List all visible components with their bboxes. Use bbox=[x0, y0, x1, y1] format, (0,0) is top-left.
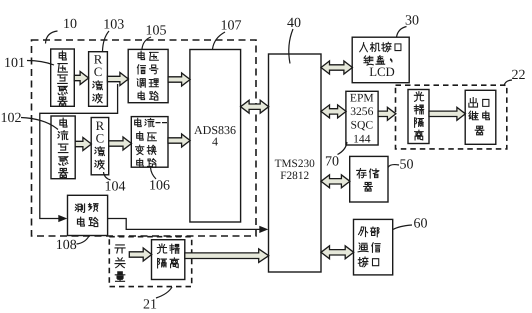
svg-text:LCD: LCD bbox=[369, 65, 395, 79]
leader 104 bbox=[104, 172, 111, 180]
leader 106 bbox=[151, 168, 157, 180]
svg-text:22: 22 bbox=[512, 68, 526, 83]
text 开关量 switch quantity bbox=[115, 245, 125, 281]
leader 108 bbox=[77, 236, 90, 244]
arrow optocoupler 21 to 40 TMS bbox=[185, 249, 269, 263]
arrow 70 EPM to optocoupler 22 bbox=[378, 107, 396, 120]
box 50 memory 存储器 bbox=[350, 156, 388, 202]
label 102 bbox=[1, 111, 22, 126]
label 22 bbox=[512, 68, 526, 83]
double arrow 40 TMS to 60 comm interface bbox=[321, 246, 354, 259]
svg-text:10: 10 bbox=[63, 17, 77, 32]
box optocoupler isolation 光耦隔离 (in 21) bbox=[152, 240, 185, 280]
svg-text:EPM: EPM bbox=[350, 92, 374, 105]
label 70 bbox=[325, 155, 339, 170]
text 电流--电压变换电路 bbox=[135, 118, 167, 167]
arrow 103 to 105 bbox=[107, 73, 128, 86]
text 人机接口键盘、LCD bbox=[360, 42, 401, 79]
leader 21 bbox=[156, 287, 172, 298]
box 107 A/D converter ADS8364 bbox=[190, 50, 241, 223]
text TMS230 F2812 bbox=[275, 158, 316, 182]
text 光耦隔离 vertical bbox=[414, 92, 423, 140]
text 光耦隔离 (21) bbox=[157, 244, 179, 268]
svg-text:21: 21 bbox=[143, 298, 157, 313]
text 存储器 bbox=[357, 169, 379, 192]
svg-text:107: 107 bbox=[221, 19, 242, 34]
svg-text:144: 144 bbox=[353, 133, 371, 146]
label 50 bbox=[400, 158, 414, 173]
label 60 bbox=[414, 217, 428, 232]
text 电压信号调理电路 bbox=[137, 51, 158, 100]
label 107 bbox=[221, 19, 242, 34]
leader 60 bbox=[393, 225, 412, 230]
label 103 bbox=[103, 18, 124, 33]
text 出口继电器 bbox=[469, 97, 490, 134]
text R C 滤 波 bbox=[93, 52, 103, 102]
arrow 101 to 103 bbox=[74, 72, 88, 85]
arrow optocoupler to outlet relay bbox=[429, 107, 465, 120]
leader 22 bbox=[504, 80, 512, 86]
text 测频电路 bbox=[75, 203, 98, 226]
box 30 man-machine interface keyboard LCD 人机接口键盘、LCD bbox=[352, 37, 409, 82]
label 10 bbox=[63, 17, 77, 32]
double arrow 40 TMS to 50 memory bbox=[321, 175, 350, 188]
svg-text:105: 105 bbox=[146, 24, 167, 39]
double arrow 40 TMS to 70 EPM bbox=[321, 105, 346, 118]
box 105 voltage signal conditioning circuit 电压信号调理电路 bbox=[128, 49, 168, 102]
leader 70 bbox=[338, 142, 348, 155]
dashed enclosure 10 (acquisition unit) bbox=[32, 40, 257, 236]
box 102 current transformer 电流互感器 bbox=[51, 116, 75, 179]
text ADS8364 bbox=[194, 123, 236, 149]
dashed enclosure 21 (switch input unit) bbox=[109, 237, 191, 287]
arrow 102 to 104 bbox=[75, 138, 91, 151]
leader 30 bbox=[397, 27, 407, 38]
box 101 voltage transformer 电压互感器 bbox=[51, 49, 75, 106]
svg-text:SQC: SQC bbox=[351, 118, 374, 131]
svg-text:101: 101 bbox=[4, 56, 25, 71]
text 电压互感器 bbox=[58, 51, 68, 106]
box optocoupler isolation 光耦隔离 (in 22) bbox=[408, 90, 429, 144]
svg-text:C: C bbox=[96, 132, 105, 146]
leader 105 bbox=[142, 37, 151, 49]
box 60 external communication interface 外部通信接口 bbox=[354, 219, 393, 275]
arrow 106 to 107 bbox=[168, 134, 190, 147]
box 70 CPLD EPM3256SQC144 bbox=[346, 91, 378, 145]
leader 50 bbox=[388, 165, 399, 168]
box 106 current-voltage converting circuit 电流--电压变换电路 bbox=[131, 117, 168, 168]
box 40 DSP processor TMS320F2812 bbox=[269, 54, 322, 272]
double arrow 40 TMS to 30 interface bbox=[321, 61, 352, 74]
box 108 frequency measuring circuit 测频电路 bbox=[68, 195, 108, 235]
svg-text:C: C bbox=[94, 65, 103, 79]
svg-text:102: 102 bbox=[1, 111, 22, 126]
svg-text:104: 104 bbox=[105, 180, 126, 195]
svg-text:30: 30 bbox=[405, 14, 419, 29]
svg-text:70: 70 bbox=[325, 155, 339, 170]
label 21 bbox=[143, 298, 157, 313]
svg-text:40: 40 bbox=[287, 16, 301, 31]
leader 10 bbox=[46, 31, 58, 44]
double arrow 107 ADS8364 to 40 TMS bbox=[241, 100, 269, 113]
text 电流互感器 bbox=[58, 118, 68, 177]
label 105 bbox=[146, 24, 167, 39]
label 108 bbox=[56, 238, 77, 253]
leader 107 bbox=[213, 32, 226, 49]
svg-text:F2812: F2812 bbox=[280, 170, 309, 182]
arrow 105 to 107 bbox=[168, 73, 190, 86]
box 104 RC filter RC滤波 bbox=[91, 118, 109, 175]
text R C 滤 波 bbox=[95, 119, 105, 169]
svg-text:108: 108 bbox=[56, 238, 77, 253]
svg-text:60: 60 bbox=[414, 217, 428, 232]
svg-text:4: 4 bbox=[212, 135, 218, 149]
leader 103 bbox=[103, 31, 110, 51]
arrow 104 to 106 bbox=[109, 137, 132, 150]
label 106 bbox=[149, 179, 170, 194]
box 103 RC filter RC滤波 bbox=[89, 52, 108, 107]
dashed enclosure 22 (relay output unit) bbox=[396, 85, 507, 149]
text EPM3256SQC144 bbox=[350, 92, 374, 146]
arrow switch input to optocoupler 21 bbox=[129, 248, 151, 261]
svg-text:3256: 3256 bbox=[350, 105, 373, 118]
leader 101 bbox=[27, 61, 54, 66]
leader 40 bbox=[289, 29, 293, 64]
text 外部通信接口 bbox=[358, 227, 380, 267]
label 30 bbox=[405, 14, 419, 29]
svg-text:50: 50 bbox=[400, 158, 414, 173]
label 101 bbox=[4, 56, 25, 71]
wire from frequency measuring circuit 108 to processor 40 bbox=[108, 219, 268, 234]
box outlet relay 出口继电器 bbox=[465, 90, 496, 144]
svg-text:106: 106 bbox=[149, 179, 170, 194]
label 40 bbox=[287, 16, 301, 31]
svg-text:TMS230: TMS230 bbox=[275, 158, 316, 170]
label 104 bbox=[105, 180, 126, 195]
leader 102 bbox=[21, 118, 58, 130]
wire from voltage channel node to frequency measuring circuit 108 bbox=[40, 84, 118, 222]
svg-text:103: 103 bbox=[103, 18, 124, 33]
